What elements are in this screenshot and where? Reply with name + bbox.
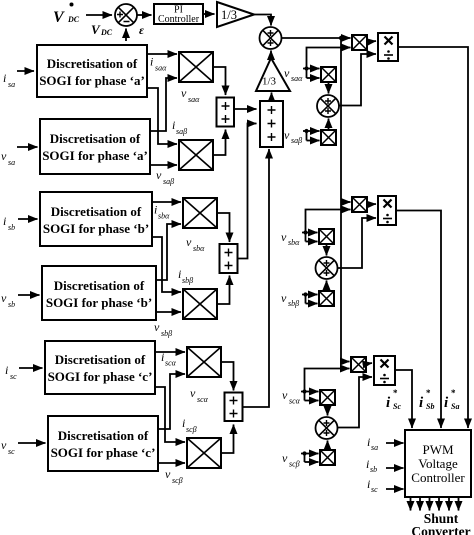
svg-text:i: i: [366, 457, 369, 471]
svg-text:i: i: [150, 55, 153, 69]
svg-text:i: i: [386, 395, 391, 411]
svg-text:SOGI for phase ‘b’: SOGI for phase ‘b’: [43, 221, 149, 236]
svg-text:SOGI for phase ‘c’: SOGI for phase ‘c’: [48, 369, 153, 384]
svg-text:v: v: [190, 386, 196, 400]
svg-text:SOGI for phase ‘a’: SOGI for phase ‘a’: [39, 73, 145, 88]
svg-text:v: v: [281, 291, 287, 305]
svg-text:v: v: [156, 168, 162, 182]
svg-text:i: i: [419, 395, 424, 411]
svg-text:Discretisation of: Discretisation of: [50, 131, 141, 146]
svg-text:Sc: Sc: [393, 402, 401, 411]
svg-text:sbα: sbα: [288, 238, 300, 247]
svg-text:DC: DC: [100, 28, 113, 37]
svg-text:Discretisation of: Discretisation of: [54, 278, 145, 293]
svg-text:v: v: [282, 451, 288, 465]
svg-text:v: v: [186, 235, 192, 249]
svg-text:Voltage: Voltage: [418, 456, 458, 471]
svg-text:sa: sa: [8, 80, 15, 89]
svg-text:Controller: Controller: [411, 470, 465, 485]
svg-text:SOGI for phase ‘a’: SOGI for phase ‘a’: [42, 148, 148, 163]
svg-text:saα: saα: [188, 95, 200, 104]
svg-text:v: v: [154, 320, 160, 334]
svg-text:Controller: Controller: [158, 14, 200, 25]
svg-text:*: *: [393, 388, 398, 398]
svg-text:Sa: Sa: [451, 402, 459, 411]
svg-text:i: i: [178, 267, 181, 281]
svg-text:V: V: [53, 9, 65, 26]
svg-text:i: i: [367, 477, 370, 491]
svg-text:*: *: [426, 388, 431, 398]
svg-text:PWM: PWM: [422, 442, 454, 457]
svg-text:*: *: [451, 388, 456, 398]
svg-text:sc: sc: [8, 447, 15, 456]
svg-text:sbα: sbα: [193, 244, 205, 253]
svg-text:scα: scα: [289, 397, 301, 406]
svg-text:v: v: [282, 388, 288, 402]
svg-text:sa: sa: [371, 443, 378, 452]
svg-text:sc: sc: [371, 485, 378, 494]
svg-text:v: v: [1, 149, 7, 163]
svg-text:scα: scα: [197, 395, 209, 404]
svg-text:1/3: 1/3: [262, 76, 277, 88]
svg-text:sc: sc: [10, 372, 17, 381]
svg-text:sbβ: sbβ: [161, 329, 172, 338]
svg-text:Discretisation of: Discretisation of: [55, 352, 146, 367]
svg-text:i: i: [367, 435, 370, 449]
svg-text:DC: DC: [67, 15, 80, 24]
svg-text:saα: saα: [291, 74, 303, 83]
svg-text:i: i: [172, 118, 175, 132]
svg-text:sb: sb: [8, 300, 15, 309]
svg-text:Converter: Converter: [411, 524, 470, 535]
svg-text:Discretisation of: Discretisation of: [58, 428, 149, 443]
svg-text:v: v: [284, 66, 290, 80]
svg-text:v: v: [281, 230, 287, 244]
svg-text:sa: sa: [8, 158, 15, 167]
svg-text:i: i: [444, 395, 449, 411]
svg-text:1/3: 1/3: [221, 8, 237, 22]
svg-text:sbα: sbα: [158, 212, 170, 221]
svg-text:sb: sb: [370, 465, 377, 474]
svg-text:scβ: scβ: [289, 460, 300, 469]
svg-text:ε: ε: [139, 23, 144, 37]
svg-text:sbβ: sbβ: [288, 299, 299, 308]
svg-text:v: v: [165, 467, 171, 481]
svg-text:saβ: saβ: [291, 136, 302, 145]
svg-text:i: i: [154, 203, 157, 217]
svg-text:sb: sb: [8, 223, 15, 232]
svg-text:v: v: [284, 128, 290, 142]
svg-text:saα: saα: [155, 64, 167, 73]
svg-text:i: i: [3, 214, 6, 228]
svg-text:i: i: [5, 363, 8, 377]
svg-text:v: v: [181, 86, 187, 100]
svg-text:i: i: [161, 350, 164, 364]
svg-text:V: V: [91, 22, 101, 37]
svg-text:saβ: saβ: [176, 127, 187, 136]
svg-text:Sb: Sb: [426, 402, 434, 411]
svg-text:i: i: [182, 416, 185, 430]
svg-text:Discretisation of: Discretisation of: [51, 204, 142, 219]
svg-text:sbβ: sbβ: [182, 276, 193, 285]
svg-text:i: i: [3, 71, 6, 85]
svg-text:scα: scα: [165, 359, 177, 368]
svg-text:scβ: scβ: [186, 425, 197, 434]
svg-text:v: v: [1, 438, 7, 452]
svg-text:SOGI for phase ‘b’: SOGI for phase ‘b’: [46, 295, 152, 310]
svg-text:SOGI for phase ‘c’: SOGI for phase ‘c’: [51, 445, 156, 460]
svg-text:saβ: saβ: [163, 177, 174, 186]
svg-text:scβ: scβ: [172, 476, 183, 485]
svg-text:Discretisation of: Discretisation of: [47, 56, 138, 71]
svg-text:v: v: [1, 291, 7, 305]
